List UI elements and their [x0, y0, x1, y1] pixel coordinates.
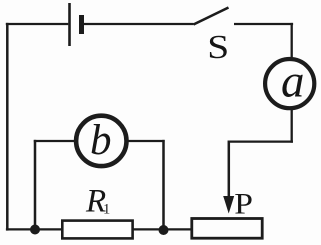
svg-text:1: 1 [103, 201, 110, 217]
svg-text:S: S [207, 27, 229, 65]
svg-text:b: b [90, 117, 112, 164]
svg-text:P: P [234, 187, 253, 220]
svg-text:a: a [281, 56, 305, 108]
